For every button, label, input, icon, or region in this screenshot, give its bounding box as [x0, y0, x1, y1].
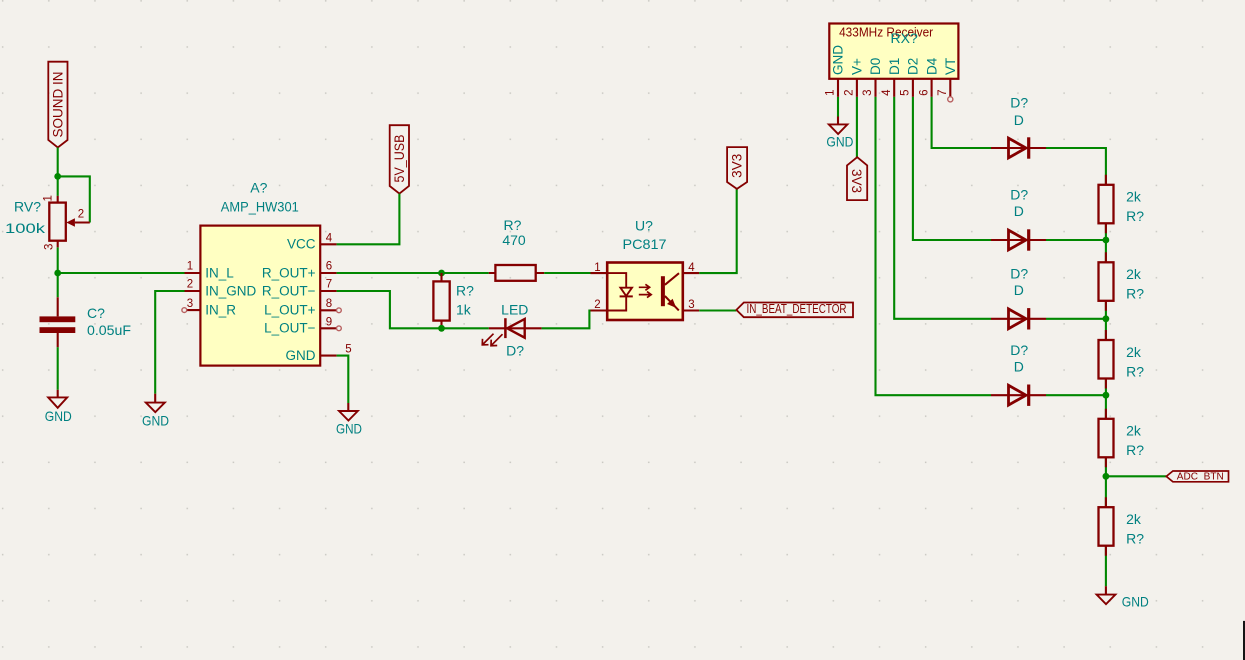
receiver module RX? 433MHz — [825, 24, 959, 102]
wire RX pin4 D1 to diode D3 row — [894, 97, 991, 319]
svg-text:2: 2 — [594, 299, 600, 311]
svg-text:LED: LED — [501, 301, 528, 317]
resistor R? 2k (5) — [1099, 497, 1114, 556]
A? pin 8 unconnected circle — [337, 308, 342, 313]
wire A? GND pin to ground — [337, 356, 349, 403]
wire C? to ground — [57, 347, 59, 390]
resistor R? 2k (1) — [1099, 175, 1114, 234]
node junction R1k bottom — [438, 325, 445, 332]
svg-text:5V_USB: 5V_USB — [392, 135, 407, 183]
resistor R? 2k (4) — [1099, 409, 1114, 468]
ground symbol (RX?) — [826, 117, 853, 150]
svg-text:GND: GND — [826, 133, 853, 149]
svg-text:U?: U? — [635, 218, 653, 234]
svg-text:IN_R: IN_R — [205, 303, 236, 318]
wire D2 row to ladder — [1046, 239, 1106, 241]
svg-text:2: 2 — [187, 279, 193, 291]
svg-text:A?: A? — [250, 179, 267, 195]
U? phototransistor — [661, 276, 665, 306]
svg-text:1: 1 — [43, 195, 55, 201]
svg-text:R?: R? — [1126, 363, 1144, 379]
svg-text:D4: D4 — [924, 57, 939, 75]
svg-text:C?: C? — [87, 305, 105, 321]
resistor R? 470 — [489, 265, 544, 281]
svg-text:2k: 2k — [1126, 266, 1142, 282]
svg-text:D?: D? — [1010, 342, 1028, 358]
svg-text:D2: D2 — [906, 58, 921, 75]
svg-text:RV?: RV? — [14, 199, 41, 215]
svg-text:4: 4 — [881, 89, 893, 96]
svg-text:3: 3 — [44, 244, 56, 250]
svg-text:5: 5 — [345, 343, 351, 355]
svg-text:3V3: 3V3 — [849, 169, 864, 193]
svg-text:ADC_BTN: ADC_BTN — [1177, 471, 1224, 483]
RX? pin stubs 1-7 — [838, 79, 950, 97]
svg-text:7: 7 — [326, 279, 332, 291]
svg-text:R?: R? — [1126, 208, 1144, 224]
svg-text:4: 4 — [688, 262, 695, 274]
wire A? pin7 R_OUT- to LED row — [337, 291, 489, 328]
wire RX pin6 D4 to diode D1 row — [932, 97, 991, 148]
diode D? (row 2) — [991, 229, 1046, 250]
svg-text:2k: 2k — [1126, 511, 1142, 527]
wire VCC to 5V_USB — [337, 194, 400, 245]
svg-text:2: 2 — [78, 209, 84, 221]
wire junction to C? — [57, 273, 59, 297]
LED D? — [482, 318, 541, 346]
svg-text:6: 6 — [918, 89, 930, 95]
A? pin 3 unconnected circle — [182, 308, 187, 313]
svg-text:D0: D0 — [868, 58, 883, 75]
wire RX pin1 to ground — [837, 97, 839, 117]
svg-text:D: D — [1014, 358, 1024, 374]
wire U? pin3 to IN_BEAT_DETECTOR — [699, 309, 736, 311]
svg-text:D?: D? — [1010, 265, 1028, 281]
svg-text:0.05uF: 0.05uF — [87, 322, 131, 338]
svg-text:2: 2 — [844, 89, 856, 95]
wire pot to junction — [57, 247, 59, 273]
svg-text:R_OUT+: R_OUT+ — [262, 265, 316, 280]
svg-text:V+: V+ — [850, 58, 865, 75]
svg-text:3: 3 — [688, 299, 694, 311]
svg-text:3: 3 — [862, 89, 874, 95]
resistor R? 2k (3) — [1099, 330, 1114, 389]
global label SOUND IN — [48, 62, 67, 148]
diode D? (row 4) — [991, 385, 1046, 406]
resistor R? 2k (2) — [1099, 252, 1114, 310]
node junction ladder 1 — [1103, 237, 1110, 244]
A? left pin stubs 1,2,3 — [185, 273, 201, 310]
U? internal LED — [607, 273, 626, 310]
svg-text:4: 4 — [326, 233, 333, 245]
svg-text:L_OUT−: L_OUT− — [264, 321, 316, 336]
svg-text:GND: GND — [45, 408, 72, 424]
svg-text:GND: GND — [142, 412, 169, 428]
ground symbol (A? GND) — [336, 403, 362, 436]
svg-text:D: D — [1014, 112, 1024, 128]
svg-text:R?: R? — [504, 217, 522, 233]
svg-text:R?: R? — [456, 282, 474, 298]
global label ADC_BTN — [1166, 471, 1228, 483]
svg-text:1: 1 — [187, 261, 193, 273]
wire D3 row to ladder — [1046, 318, 1106, 320]
svg-text:2k: 2k — [1126, 344, 1142, 360]
node junction ladder 3 — [1103, 392, 1110, 399]
svg-text:7: 7 — [937, 89, 949, 95]
svg-text:GND: GND — [831, 45, 846, 75]
power label 3V3 (U?) — [727, 147, 747, 189]
RX? pin 7 unconnected circle — [948, 97, 953, 102]
svg-text:D?: D? — [1010, 187, 1028, 203]
svg-text:R?: R? — [1126, 531, 1144, 547]
svg-text:1: 1 — [825, 89, 837, 95]
ground symbol (C?) — [45, 390, 72, 424]
svg-text:3: 3 — [187, 298, 193, 310]
node junction pot top — [54, 173, 61, 180]
node junction below pot — [54, 270, 61, 277]
svg-text:D?: D? — [1010, 94, 1028, 110]
wire wiper loop — [58, 176, 90, 222]
wire A? pin6 R_OUT+ — [337, 272, 489, 274]
ground symbol (IN_GND) — [142, 394, 169, 429]
svg-text:GND: GND — [1122, 594, 1149, 610]
svg-text:PC817: PC817 — [623, 236, 667, 252]
wire RX pin2 V+ to 3V3 — [856, 97, 858, 157]
svg-text:VCC: VCC — [287, 237, 316, 252]
svg-text:D: D — [1014, 203, 1024, 219]
svg-text:D: D — [1014, 282, 1024, 298]
svg-text:IN_L: IN_L — [205, 265, 234, 280]
svg-text:1: 1 — [594, 262, 600, 274]
svg-text:433MHz Receiver: 433MHz Receiver — [839, 26, 933, 40]
wire A? pin2 IN_GND to ground — [155, 291, 184, 394]
svg-text:6: 6 — [326, 261, 332, 273]
svg-text:100k: 100k — [5, 220, 46, 236]
svg-text:VT: VT — [943, 58, 958, 75]
scrollbar fragment — [1243, 621, 1245, 660]
potentiometer RV? — [43, 195, 90, 250]
resistor R? 1k — [433, 273, 449, 328]
node junction R470 left — [438, 270, 445, 277]
wire R470 to U? pin1 — [544, 272, 590, 274]
svg-text:2k: 2k — [1126, 423, 1142, 439]
svg-text:1k: 1k — [456, 302, 472, 318]
capacitor C? — [40, 297, 76, 347]
optocoupler U? PC817 — [591, 262, 700, 320]
svg-text:L_OUT+: L_OUT+ — [264, 303, 316, 318]
svg-text:SOUND IN: SOUND IN — [50, 72, 65, 138]
wire RX pin5 D2 to diode D2 row — [913, 97, 991, 240]
svg-text:2k: 2k — [1126, 189, 1142, 205]
svg-text:R_OUT−: R_OUT− — [262, 283, 316, 298]
wire to ADC_BTN — [1106, 475, 1166, 477]
svg-text:GND: GND — [286, 348, 316, 363]
op-amp module A? AMP_HW301 — [182, 226, 352, 366]
node junction ladder 2 — [1103, 315, 1110, 322]
svg-text:5: 5 — [900, 89, 912, 95]
node junction ADC_BTN — [1103, 473, 1110, 480]
wire U? pin4 to 3V3 — [699, 189, 737, 273]
svg-text:R?: R? — [1126, 442, 1144, 458]
svg-text:8: 8 — [326, 298, 332, 310]
svg-text:470: 470 — [502, 232, 526, 248]
power label 3V3 (RX?) — [847, 157, 867, 200]
svg-text:IN_BEAT_DETECTOR: IN_BEAT_DETECTOR — [747, 301, 847, 316]
power label 5V_USB — [390, 125, 409, 193]
wire SOUND_IN to pot — [57, 148, 59, 196]
U? light arrows — [639, 284, 650, 290]
wire junction to A? pin1 — [58, 272, 185, 274]
wire RX pin3 D0 to diode D4 row — [876, 97, 992, 395]
svg-text:3V3: 3V3 — [730, 154, 745, 178]
svg-text:IN_GND: IN_GND — [205, 283, 256, 298]
svg-text:RX?: RX? — [891, 30, 918, 46]
global label IN_BEAT_DETECTOR — [736, 301, 853, 317]
svg-text:D1: D1 — [887, 58, 902, 75]
diode D? (row 3) — [991, 308, 1046, 329]
wire resistor ladder — [1046, 148, 1106, 586]
svg-text:AMP_HW301: AMP_HW301 — [221, 199, 299, 215]
A? pin 9 unconnected circle — [337, 326, 342, 331]
wire D4 row to ladder — [1046, 394, 1106, 396]
A? right pin stubs 4,6,7,8,9,5 — [320, 244, 336, 355]
svg-text:D?: D? — [506, 342, 524, 358]
svg-text:GND: GND — [336, 420, 362, 436]
svg-text:R?: R? — [1126, 286, 1144, 302]
diode D? (row 1) — [991, 137, 1046, 158]
svg-text:9: 9 — [326, 316, 332, 328]
wire LED to U? pin2 — [542, 311, 591, 329]
LED emission arrows — [482, 334, 493, 345]
ground symbol (ladder) — [1097, 586, 1149, 609]
